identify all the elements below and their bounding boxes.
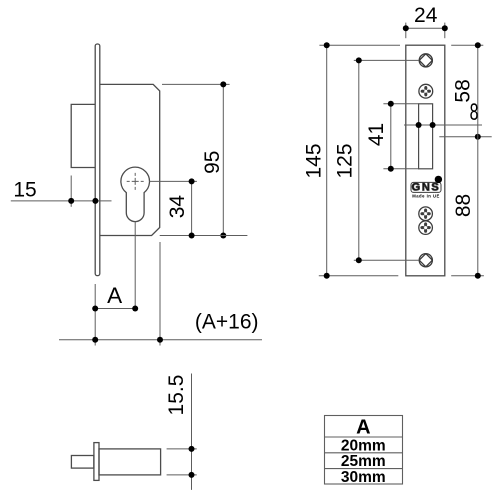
GNS logo badge xyxy=(411,176,442,199)
dimension 15.5 (case thickness) xyxy=(167,374,197,490)
dimension 125 (between spindle holes) xyxy=(354,60,419,260)
lower fixing screw 1 xyxy=(419,207,433,221)
svg-text:41: 41 xyxy=(365,123,388,146)
svg-text:34: 34 xyxy=(166,195,189,219)
table frame xyxy=(325,416,403,485)
cylinder nose xyxy=(71,456,94,469)
dimension 41 (slot length) xyxy=(383,104,418,169)
58 reference line xyxy=(439,136,491,138)
dimension A (backset) xyxy=(95,222,135,346)
lock body outline with chamfered right corners xyxy=(100,84,160,235)
svg-text:GNS: GNS xyxy=(412,182,441,194)
dimension (A+16) baseline xyxy=(59,242,262,346)
latch/deadbolt protruding left xyxy=(71,104,95,167)
svg-text:8: 8 xyxy=(470,100,479,126)
dimension 145 (plate length) xyxy=(319,45,400,276)
faceplate front rectangle xyxy=(406,45,445,276)
latch slot xyxy=(419,104,433,169)
svg-text:30mm: 30mm xyxy=(341,469,386,486)
dimension 58 / 8 / 88 (right side) xyxy=(451,45,484,276)
svg-text:(A+16): (A+16) xyxy=(195,311,259,334)
svg-text:Made in UE: Made in UE xyxy=(412,193,440,198)
svg-text:25mm: 25mm xyxy=(341,453,386,470)
cylinder center crosshair xyxy=(127,173,144,190)
svg-text:20mm: 20mm xyxy=(341,437,386,454)
cylinder body (section) xyxy=(99,449,161,475)
euro cylinder keyhole profile xyxy=(121,167,150,221)
svg-text:58: 58 xyxy=(451,79,474,102)
dimension 24 (plate width) xyxy=(406,23,445,39)
svg-text:145: 145 xyxy=(303,143,326,178)
faceplate (section bar) xyxy=(94,443,99,481)
faceplate (side view, vertical bar) xyxy=(95,44,100,276)
dimension 95 (case height) xyxy=(162,84,230,235)
bottom spindle square hole xyxy=(419,254,432,267)
lower fixing screw 2 xyxy=(419,221,433,235)
svg-text:A: A xyxy=(356,417,370,439)
dimension 34 (cylinder centre to case bottom) xyxy=(149,181,247,235)
cylinder axis line across slot xyxy=(404,124,482,126)
svg-text:88: 88 xyxy=(452,194,475,217)
dimension 15 (latch projection) xyxy=(11,176,112,207)
svg-text:95: 95 xyxy=(201,151,224,174)
svg-text:15.5: 15.5 xyxy=(165,375,188,416)
svg-text:15: 15 xyxy=(13,178,36,201)
svg-text:125: 125 xyxy=(334,143,357,178)
top spindle square hole xyxy=(419,54,432,67)
top fixing screw xyxy=(419,84,433,98)
svg-text:24: 24 xyxy=(414,4,438,27)
svg-text:A: A xyxy=(107,283,122,308)
